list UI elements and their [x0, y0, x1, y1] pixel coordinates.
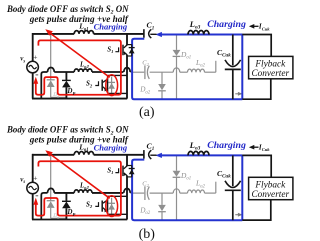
svg-text:(a): (a) — [139, 105, 155, 120]
svg-text:(b): (b) — [139, 227, 156, 241]
